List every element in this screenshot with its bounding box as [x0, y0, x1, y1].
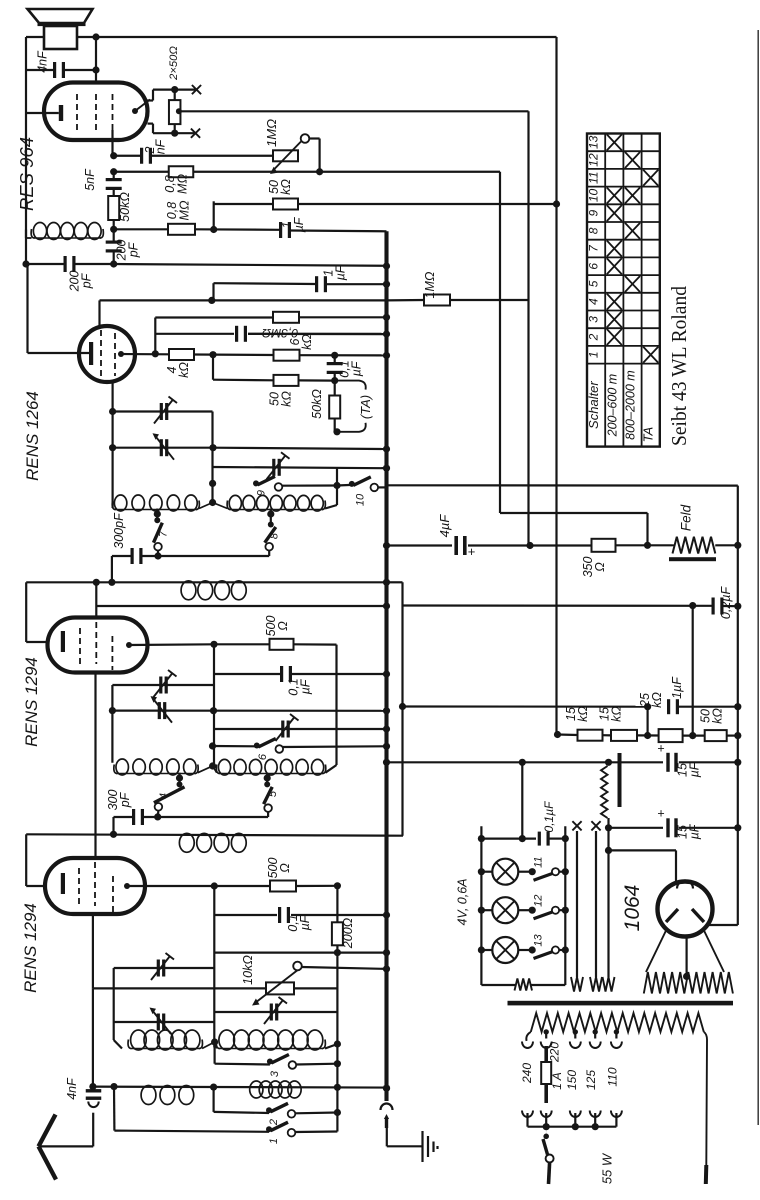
- svg-text:4nF: 4nF: [65, 1077, 79, 1100]
- coil stage3 left: [128, 1030, 202, 1050]
- junction 350/Feld: [644, 542, 651, 549]
- wire: [113, 190, 115, 197]
- terminal 10k wiper: [293, 962, 302, 971]
- junction bus y1088: [383, 1085, 390, 1092]
- wire sel lead: [526, 1113, 528, 1127]
- junction Feld right: [734, 542, 741, 549]
- resistor 6 kOhm: [274, 350, 300, 361]
- capacitor 15uF b: [666, 818, 677, 837]
- wire rowA stage3: [114, 967, 215, 969]
- wire: [530, 544, 592, 546]
- wire: [679, 827, 738, 829]
- svg-text:+: +: [657, 742, 664, 756]
- junction 15uF b line: [605, 824, 612, 831]
- wire: [152, 90, 154, 101]
- junction bus y762: [383, 759, 390, 766]
- coil HF stage1 left: [112, 495, 199, 511]
- svg-text:10kΩ: 10kΩ: [241, 955, 255, 985]
- connector chassis socket: [381, 1104, 393, 1110]
- svg-text:µF: µF: [350, 360, 364, 376]
- wire: [270, 509, 272, 525]
- junction 200R bottom: [334, 949, 341, 956]
- connector sel 546: [541, 1111, 552, 1118]
- junction coil taps stage1: [209, 499, 216, 506]
- wire right vertical x738: [737, 545, 739, 925]
- svg-text:200Ω: 200Ω: [341, 917, 355, 949]
- junction lamp branch: [519, 759, 526, 766]
- junction sel 546: [543, 1123, 550, 1130]
- wire: [112, 817, 114, 834]
- wire mains right: [704, 1032, 707, 1165]
- resistor 500 Ohm stage3: [270, 881, 296, 892]
- junction pot wiper: [316, 168, 323, 175]
- node anode RENS1294b: [124, 883, 130, 889]
- wire: [25, 70, 27, 113]
- wire: [559, 871, 565, 873]
- junction anode 1064 branch: [605, 847, 612, 854]
- resistor lamp series: [515, 979, 533, 991]
- connector tap 546: [541, 1042, 552, 1049]
- wire lamp frame right: [564, 826, 566, 985]
- junction y264: [110, 260, 117, 267]
- svg-text:12: 12: [533, 895, 545, 907]
- tap coil2 stage2: [264, 774, 271, 781]
- wire: [174, 124, 176, 133]
- junction lamp3 left: [478, 946, 485, 953]
- junction lamp1 frame: [562, 868, 569, 875]
- wire y485 long: [387, 484, 738, 487]
- wire: [214, 914, 277, 916]
- svg-text:125: 125: [584, 1070, 598, 1090]
- junction bus y746: [383, 743, 390, 750]
- svg-text:pF: pF: [127, 241, 141, 258]
- wire: [648, 544, 673, 546]
- switch 7: [154, 517, 163, 550]
- junction TA bottom: [333, 428, 340, 435]
- wire: [214, 1042, 216, 1064]
- wire: [266, 773, 268, 785]
- svg-text:Ω: Ω: [593, 562, 607, 572]
- wire rowA stage2: [112, 684, 214, 686]
- wire x93 lower: [92, 914, 94, 988]
- svg-text:4µF: 4µF: [437, 514, 452, 538]
- svg-text:50kΩ: 50kΩ: [310, 389, 324, 419]
- capacitor 4uF electrolytic: [454, 536, 466, 555]
- svg-text:5: 5: [267, 790, 279, 797]
- wire: [98, 300, 100, 327]
- wire right vertical x556: [555, 37, 557, 734]
- wire: [327, 283, 387, 285]
- terminal X bottom: [191, 129, 200, 138]
- svg-text:3: 3: [587, 316, 601, 323]
- coil HF stage1 right: [227, 495, 325, 511]
- wire rowA stage1: [113, 410, 213, 412]
- junction x556/row: [554, 731, 561, 738]
- svg-text:4V, 0,6A: 4V, 0,6A: [456, 878, 470, 925]
- svg-text:4nF: 4nF: [36, 50, 50, 73]
- wire: [325, 505, 337, 509]
- capacitor 0.1uF lamps: [538, 832, 550, 846]
- wire to bus corner: [291, 229, 387, 232]
- wire sel lead: [545, 1113, 547, 1127]
- wire: [113, 220, 115, 229]
- table X row5 col3: [625, 276, 640, 292]
- wire: [75, 263, 114, 265]
- junction 5nF top: [110, 168, 117, 175]
- junction lamp top right: [562, 835, 569, 842]
- svg-text:6: 6: [587, 263, 601, 270]
- resistor 1MOhm: [424, 295, 450, 306]
- junction heater center tap: [683, 973, 690, 980]
- wire: [468, 544, 530, 546]
- winding tip: [571, 977, 583, 992]
- svg-text:RENS 1264: RENS 1264: [23, 391, 42, 481]
- tap coil2: [267, 510, 274, 517]
- svg-text:kΩ: kΩ: [279, 179, 293, 195]
- junction left bus y264: [22, 260, 29, 267]
- svg-text:kΩ: kΩ: [177, 362, 191, 378]
- wire y988: [93, 987, 265, 989]
- connector sel 575: [570, 1111, 581, 1118]
- svg-text:1MΩ: 1MΩ: [423, 271, 437, 298]
- wire: [155, 333, 234, 335]
- junction row x692: [689, 732, 696, 739]
- junction 2x50 bottom: [171, 130, 178, 137]
- wire y556: [142, 555, 269, 557]
- wire: [679, 761, 738, 763]
- tap primary 575: [573, 1029, 578, 1034]
- wire: [65, 69, 97, 71]
- wire: [325, 765, 336, 773]
- svg-text:800–2000 m: 800–2000 m: [624, 370, 638, 440]
- wire: [607, 850, 609, 977]
- wire: [152, 124, 154, 134]
- svg-text:Feld: Feld: [679, 504, 694, 531]
- field coil Feld zigzag: [673, 537, 716, 554]
- tube 1064: [658, 882, 713, 937]
- table X row11 col4: [643, 170, 658, 186]
- junction lamp1 right: [529, 868, 536, 875]
- wire sel lead: [594, 1113, 596, 1127]
- svg-text:pF: pF: [80, 272, 94, 289]
- svg-text:RENS 1294: RENS 1294: [22, 657, 41, 747]
- wire y605: [403, 604, 713, 606]
- junction rowB left stage2: [109, 707, 116, 714]
- svg-text:µF: µF: [688, 761, 702, 777]
- antenna: [39, 1115, 57, 1180]
- wire grid vertical x95: [94, 673, 96, 859]
- junction grid RES964: [110, 152, 117, 159]
- junction rowB left: [109, 444, 116, 451]
- wire: [113, 172, 115, 178]
- junction switch4/cap line: [154, 813, 161, 820]
- junction bus y969: [383, 965, 390, 972]
- capacitor 300pF stage1: [131, 548, 143, 564]
- capacitor 200pF shunt: [106, 241, 122, 253]
- wire y952: [214, 951, 386, 953]
- wire selector bus: [528, 1126, 617, 1128]
- junction rail y1087: [210, 1084, 217, 1091]
- wire: [212, 355, 214, 380]
- wire: [214, 673, 280, 675]
- wire y729: [214, 728, 387, 730]
- wire: [386, 1128, 388, 1146]
- connector tap 595: [590, 1042, 601, 1049]
- wire: [26, 263, 64, 265]
- wire heater lead: [576, 831, 578, 977]
- wire: [334, 419, 336, 432]
- junction x738/row: [734, 732, 741, 739]
- svg-text:2×50Ω: 2×50Ω: [168, 46, 180, 81]
- svg-text:+: +: [657, 807, 664, 821]
- junction 0.1uF/50k: [331, 377, 338, 384]
- wire: [174, 90, 176, 101]
- table X row2 col2: [607, 329, 622, 345]
- svg-text:kΩ: kΩ: [300, 334, 314, 350]
- wire: [283, 745, 387, 748]
- table X row8 col3: [625, 223, 640, 239]
- core bar Feld: [669, 557, 716, 561]
- svg-text:240: 240: [520, 1063, 534, 1084]
- resistor 200 Ohm: [332, 922, 343, 945]
- table X row10 col2: [607, 187, 622, 203]
- junction bus y952: [383, 949, 390, 956]
- wire: [559, 909, 565, 911]
- wire: [194, 353, 274, 356]
- svg-text:9: 9: [587, 209, 601, 216]
- junction x337/y1087: [334, 1084, 341, 1091]
- svg-text:110: 110: [606, 1067, 620, 1086]
- resistor 15 kOhm b: [611, 730, 637, 741]
- wire sel lead: [574, 1113, 576, 1127]
- svg-text:TA: TA: [641, 427, 656, 443]
- svg-text:50kΩ: 50kΩ: [118, 192, 132, 222]
- wire: [292, 673, 387, 675]
- junction lamp top left: [478, 835, 485, 842]
- svg-text:nF: nF: [154, 138, 168, 154]
- winding tip: [603, 977, 615, 992]
- coil stage3 right: [216, 1030, 325, 1050]
- wire: [294, 643, 337, 645]
- transformer core: [508, 1001, 734, 1006]
- resistor 25 kOhm: [659, 729, 683, 742]
- wire: [387, 299, 425, 302]
- coil filter stage2: [179, 833, 246, 852]
- wire tap lead: [545, 1032, 547, 1039]
- svg-text:8: 8: [269, 532, 281, 539]
- junction row x647: [644, 732, 651, 739]
- svg-text:µF: µF: [299, 678, 313, 694]
- wire: [334, 374, 336, 381]
- wire: [727, 734, 738, 736]
- wire: [387, 1145, 423, 1147]
- junction lamp2 left: [478, 907, 485, 914]
- wire primary left end: [526, 1032, 531, 1041]
- resistor 4 kOhm: [169, 349, 194, 360]
- junction x114: [110, 1083, 117, 1090]
- trimmer capacitor stage3 C: [264, 997, 287, 1024]
- svg-text:1 A: 1 A: [550, 1072, 564, 1090]
- junction bus y915: [383, 911, 390, 918]
- wire y817: [144, 816, 269, 818]
- wire: [156, 509, 158, 521]
- wire: [77, 36, 96, 38]
- wire: [213, 201, 215, 229]
- wire tap lead: [594, 1032, 596, 1039]
- junction switch7/cap line: [154, 552, 161, 559]
- svg-text:220: 220: [548, 1042, 562, 1063]
- switch 8: [265, 522, 276, 551]
- resistor 0.8 MOhm lower: [168, 224, 195, 235]
- svg-text:1064: 1064: [621, 885, 644, 932]
- junction 500R left: [210, 641, 217, 648]
- junction 6k/0.1uF: [331, 352, 338, 359]
- wire: [609, 827, 664, 829]
- wire y1064: [215, 1063, 270, 1066]
- wire dropper down: [607, 818, 609, 850]
- wire: [114, 228, 168, 230]
- junction x337/y485: [333, 482, 340, 489]
- svg-text:RENS 1294: RENS 1294: [21, 903, 40, 993]
- wire rowB stage3: [114, 1021, 215, 1023]
- resistor 50 kOhm AF: [274, 375, 299, 386]
- svg-text:10: 10: [587, 188, 601, 202]
- table Schalter grid: [587, 134, 660, 447]
- wire: [603, 734, 612, 736]
- svg-text:Ω: Ω: [276, 621, 290, 631]
- junction 2x50 top: [171, 86, 178, 93]
- wire: [155, 316, 273, 318]
- junction x738/y828: [734, 824, 741, 831]
- coil filter stage1: [181, 581, 246, 600]
- resistor 15 kOhm a: [578, 730, 603, 741]
- capacitor 1uF coupling: [279, 222, 291, 238]
- junction bus y266: [383, 262, 390, 269]
- wire antenna stub: [92, 1113, 94, 1147]
- trimmer capacitor stage2 B: [151, 696, 173, 723]
- wire y582 left: [26, 581, 386, 583]
- svg-text:µF: µF: [298, 914, 312, 930]
- resistor 0.3 MOhm: [273, 312, 299, 323]
- svg-text:11: 11: [533, 856, 545, 867]
- wire y111: [181, 110, 529, 112]
- capacitor 2nF: [140, 148, 152, 164]
- wire: [248, 333, 387, 336]
- junction sel 595: [592, 1123, 599, 1130]
- junction 0.2uF left: [689, 602, 696, 609]
- wire: [296, 1063, 337, 1066]
- wire: [336, 1087, 338, 1131]
- junction y229/x213: [210, 226, 217, 233]
- svg-text:2: 2: [587, 333, 601, 341]
- wire: [148, 99, 154, 101]
- wire: [26, 36, 44, 38]
- wire vertical x337 stage3: [336, 886, 338, 1088]
- coil antenna primary top: [31, 223, 103, 240]
- svg-text:3: 3: [269, 1070, 281, 1077]
- svg-text:(TA): (TA): [358, 395, 373, 419]
- junction coil right stage3: [334, 1040, 341, 1047]
- wire: [334, 355, 336, 362]
- wire 1064 right lead: [708, 924, 738, 926]
- capacitor 0.1uF: [327, 362, 343, 374]
- wire y513: [500, 512, 648, 514]
- wire: [92, 1145, 94, 1147]
- svg-text:pF: pF: [118, 791, 132, 808]
- wire: [157, 811, 160, 817]
- node anode RENS1264: [118, 351, 124, 357]
- wire: [113, 253, 115, 265]
- wire: [268, 551, 270, 557]
- svg-text:Schalter: Schalter: [586, 381, 601, 429]
- switch 5: [264, 781, 273, 811]
- wire: [295, 1111, 337, 1114]
- wire: [559, 949, 565, 951]
- junction y300/x213: [208, 297, 215, 304]
- resistor 500 Ohm stage2: [270, 639, 294, 650]
- wire: [114, 155, 141, 157]
- svg-text:Seibt 43 WL Roland: Seibt 43 WL Roland: [667, 286, 691, 446]
- capacitor 300pF stage2: [132, 809, 144, 825]
- wire 1064 center tap: [685, 937, 687, 977]
- ground: [423, 1131, 438, 1162]
- junction: [383, 1085, 390, 1092]
- terminal TA upper: [335, 381, 366, 390]
- table X row13 col2: [607, 134, 622, 150]
- connector tap 575: [570, 1042, 581, 1049]
- junction bus y317: [383, 314, 390, 321]
- resistor 50kOhm TA: [329, 396, 340, 419]
- junction x528/4uF: [526, 542, 533, 549]
- svg-text:1MΩ: 1MΩ: [264, 119, 279, 147]
- wire: [267, 812, 269, 817]
- junction 0.1uF branch: [519, 835, 526, 842]
- junction lamp1 left: [478, 868, 485, 875]
- trimmer capacitor stage1 B: [153, 433, 175, 460]
- trimmer capacitor stage3 B: [150, 1008, 172, 1035]
- resistor 350 Ohm: [592, 539, 616, 552]
- tap coil1: [154, 510, 161, 517]
- wire: [121, 353, 169, 355]
- wire: [334, 381, 336, 396]
- junction x556/y204: [553, 200, 560, 207]
- junction bus y449: [383, 445, 390, 452]
- wire: [481, 871, 492, 873]
- junction x337/y886: [334, 882, 341, 889]
- svg-text:7: 7: [158, 530, 170, 537]
- junction rail switch6: [209, 742, 216, 749]
- junction bus y284: [383, 281, 390, 288]
- svg-text:2: 2: [268, 1119, 280, 1126]
- wire: [26, 641, 62, 643]
- junction bus y729: [383, 725, 390, 732]
- wire: [214, 203, 273, 205]
- junction lamp2 right: [529, 907, 536, 914]
- wire: [178, 773, 180, 785]
- svg-text:0,1µF: 0,1µF: [542, 801, 556, 833]
- svg-text:µF: µF: [688, 823, 702, 839]
- wire right bypass vertical: [401, 582, 403, 835]
- connector sel 527: [522, 1111, 533, 1118]
- terminal X top: [192, 85, 201, 94]
- switch 4: [154, 781, 185, 810]
- wire: [309, 137, 319, 139]
- wire tap lead: [574, 1032, 576, 1039]
- capacitor 200pF series: [64, 256, 76, 272]
- svg-text:1µF: 1µF: [670, 676, 684, 699]
- wire: [26, 112, 59, 114]
- wire 0.3M branch vertical: [154, 318, 156, 354]
